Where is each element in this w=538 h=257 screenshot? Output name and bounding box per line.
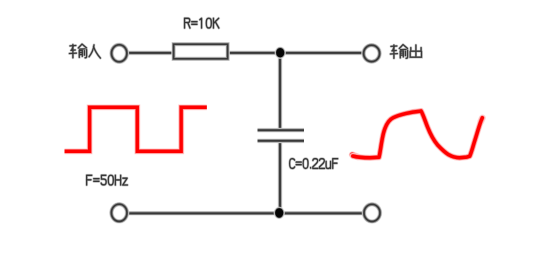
node A junction dot top [275,47,286,59]
wire node A down to capacitor [278,53,283,129]
output waveform curve [353,111,483,158]
terminal circle bottom-left [111,204,127,221]
resistor R1 body [174,44,228,59]
output waveform tip [481,118,483,122]
output waveform start tail [352,155,358,157]
node B junction dot bottom [274,207,285,219]
wire bottom return [128,211,363,216]
label R=10K [185,18,219,28]
wire resistor to node A [227,51,281,56]
terminal circle bottom-right [364,204,380,221]
terminal circle output top-right [364,45,380,61]
label C=0.22uF [290,159,338,169]
label 输出 (output) [390,45,421,59]
capacitor C1 top plate [258,128,305,133]
label F=50Hz [87,175,128,185]
wire input circle to resistor [128,51,174,56]
wire capacitor down to node B [278,142,283,213]
capacitor C1 bottom plate [258,138,305,143]
wire node A to output circle [281,51,362,56]
terminal circle input top-left [112,45,127,62]
label 输入 (input) [69,44,100,58]
input square waveform [65,107,207,151]
